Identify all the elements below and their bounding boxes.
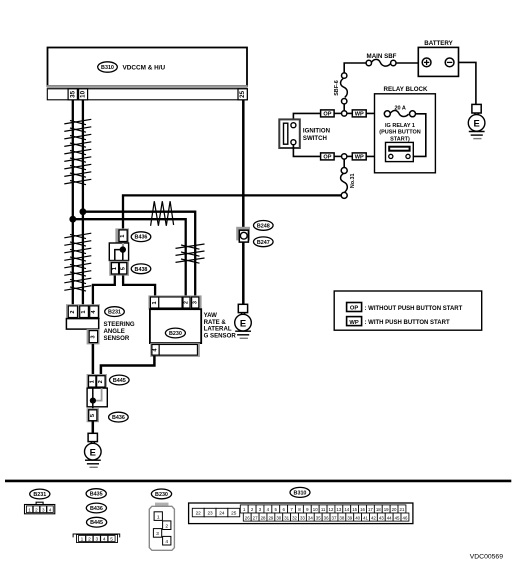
svg-text:WP: WP [355, 112, 364, 118]
wire branch from pin-10 junction to yaw sensor pin 3 [83, 212, 195, 297]
svg-text:(PUSH BUTTON: (PUSH BUTTON [379, 130, 420, 136]
oval label B436 (top) [131, 232, 151, 242]
junction on pin-10 wire [80, 208, 87, 215]
svg-text:2: 2 [35, 507, 38, 512]
svg-text:B438: B438 [135, 267, 148, 273]
svg-text:4: 4 [49, 507, 52, 512]
VDCCM pin 35 [68, 89, 77, 100]
svg-text:1: 1 [152, 301, 158, 304]
oval label B247 [253, 237, 273, 247]
oval label B438 [131, 264, 151, 274]
box OP (lower) [321, 153, 335, 161]
wire from fuse No.31 to connector B436 [123, 195, 341, 229]
fuse No.31 [341, 168, 356, 199]
svg-text:1: 1 [157, 514, 160, 520]
svg-text:START): START) [390, 136, 410, 142]
joint box below B445 [87, 388, 107, 407]
steering angle sensor bottom connector (pin 3) [87, 329, 100, 344]
svg-text:1: 1 [81, 537, 84, 543]
svg-text:41: 41 [363, 515, 368, 520]
box WP (lower) [352, 153, 366, 161]
svg-text:OP: OP [323, 112, 331, 118]
svg-text:3: 3 [192, 301, 198, 304]
svg-text:: WITH PUSH BUTTON START: : WITH PUSH BUTTON START [365, 320, 450, 326]
svg-text:2: 2 [98, 380, 104, 383]
connector B436 (bottom) [87, 408, 99, 422]
joint box below B436 [109, 243, 128, 261]
svg-text:37: 37 [332, 515, 337, 520]
svg-text:12: 12 [329, 507, 334, 512]
svg-text:B247: B247 [257, 240, 270, 246]
svg-text:25: 25 [231, 511, 237, 516]
wire from VDCCM pin 10 down to steering angle sensor pin 1 [82, 100, 84, 307]
svg-text:1: 1 [28, 507, 31, 512]
separator line [5, 480, 511, 483]
steering angle sensor caption [104, 321, 135, 342]
VDCCM pin 25 [238, 89, 247, 100]
svg-text:B230: B230 [155, 492, 168, 498]
connector B436 (top) [115, 228, 129, 242]
svg-text:10: 10 [80, 90, 87, 97]
svg-text:No.31: No.31 [350, 173, 356, 188]
svg-text:IG RELAY 1: IG RELAY 1 [385, 123, 415, 129]
wire SBF-6 to junction [343, 104, 345, 111]
svg-text:3: 3 [42, 507, 45, 512]
oval label B231 (pinout) [30, 489, 50, 499]
relay IG RELAY 1 caption [379, 123, 420, 143]
yaw sensor top connector (pins 1,2,3) [148, 295, 201, 309]
svg-text:5: 5 [120, 267, 126, 270]
svg-text:E: E [90, 446, 96, 457]
oval label B445 [110, 375, 130, 385]
svg-text:33: 33 [300, 515, 305, 520]
svg-text:4: 4 [165, 539, 168, 545]
oval label B435 (pinout) [86, 489, 106, 499]
yaw sensor caption [204, 312, 237, 339]
svg-text:ANGLE: ANGLE [104, 328, 125, 335]
ground E (body side) [85, 433, 102, 467]
wire from B436 to ground terminal [92, 421, 95, 434]
VDCCM & H/U control module B310 [47, 48, 248, 100]
svg-text:VDCCM & H/U: VDCCM & H/U [123, 65, 166, 72]
svg-text:15: 15 [352, 507, 357, 512]
svg-text:34: 34 [308, 515, 313, 520]
svg-text:20: 20 [392, 507, 397, 512]
connector B445 [87, 374, 107, 389]
svg-text:42: 42 [371, 515, 376, 520]
wire from VDCCM pin 35 down to steering angle sensor pin 2 [72, 100, 74, 307]
svg-text:29: 29 [268, 515, 273, 520]
svg-text:STEERING: STEERING [104, 321, 135, 328]
svg-text:25: 25 [239, 90, 246, 97]
oval label B445 (pinout) [87, 517, 107, 527]
wire joint dot in box [120, 246, 126, 252]
svg-text:E: E [473, 118, 479, 129]
svg-text:30: 30 [276, 515, 281, 520]
svg-text:24: 24 [219, 511, 225, 516]
VDCCM pin 10 [79, 89, 88, 100]
svg-text:WP: WP [349, 320, 358, 326]
svg-text:18: 18 [376, 507, 381, 512]
oval label B230 [165, 328, 185, 338]
svg-text:17: 17 [368, 507, 373, 512]
svg-text:: WITHOUT PUSH BUTTON START: : WITHOUT PUSH BUTTON START [365, 306, 463, 312]
oval label B248 [253, 221, 273, 231]
svg-text:38: 38 [339, 515, 344, 520]
battery [418, 40, 458, 77]
svg-text:OP: OP [350, 306, 359, 312]
svg-text:VDC00569: VDC00569 [470, 554, 503, 561]
junction circle (lower) [342, 154, 347, 159]
svg-text:B435: B435 [90, 492, 103, 498]
legend box [334, 291, 482, 330]
svg-text:IGNITION: IGNITION [303, 128, 330, 135]
svg-text:43: 43 [379, 515, 384, 520]
svg-text:36: 36 [324, 515, 329, 520]
svg-text:27: 27 [253, 515, 258, 520]
svg-text:10: 10 [313, 507, 318, 512]
svg-text:MAIN SBF: MAIN SBF [367, 53, 397, 60]
box WP (upper) [352, 110, 366, 118]
wire from B438 pin 5 to yaw sensor pin 1 [123, 275, 155, 297]
box OP (upper) [321, 110, 335, 118]
connector pinout B231 [25, 502, 55, 514]
fuse MAIN SBF [366, 53, 397, 66]
svg-text:2: 2 [88, 537, 91, 543]
ignition switch feed wire (upper OP/WP row) [293, 113, 320, 122]
svg-text:40: 40 [355, 515, 360, 520]
svg-text:31: 31 [284, 515, 289, 520]
wire MAIN SBF feed corner [344, 63, 366, 73]
svg-text:1: 1 [81, 310, 87, 313]
svg-text:35: 35 [69, 90, 76, 97]
svg-text:B436: B436 [135, 235, 148, 241]
ground E (battery side) [468, 104, 485, 138]
svg-text:B310: B310 [101, 65, 114, 71]
connector pinout B230 [149, 503, 174, 551]
ignition switch [279, 119, 330, 148]
svg-text:45: 45 [395, 515, 400, 520]
svg-text:RELAY BLOCK: RELAY BLOCK [383, 86, 428, 93]
svg-text:13: 13 [336, 507, 341, 512]
svg-text:B436: B436 [90, 506, 103, 512]
svg-text:23: 23 [207, 511, 213, 516]
fuse 20 A [384, 106, 415, 117]
svg-text:44: 44 [387, 515, 392, 520]
svg-text:35: 35 [316, 515, 321, 520]
svg-text:B436: B436 [112, 415, 125, 421]
svg-text:11: 11 [321, 507, 326, 512]
connector pinout B310 [189, 503, 413, 524]
oval label B310 (pinout) [290, 487, 310, 497]
svg-text:B310: B310 [294, 490, 307, 496]
oval label B230 (pinout) [151, 489, 171, 499]
svg-text:1: 1 [120, 235, 126, 238]
svg-text:G SENSOR: G SENSOR [204, 332, 237, 339]
svg-text:B248: B248 [257, 223, 270, 229]
svg-text:B231: B231 [33, 492, 46, 498]
twisted pair marks on horizontal branch pair [151, 201, 174, 226]
svg-text:2: 2 [165, 524, 168, 530]
svg-text:3: 3 [91, 335, 97, 338]
svg-text:32: 32 [292, 515, 297, 520]
wire from B438 pin 1 to steering angle sensor pin 4 [93, 275, 115, 306]
svg-text:WP: WP [355, 155, 364, 161]
twisted pair marks (upper band) [64, 119, 91, 184]
connector pinout B435/B436/B445 [73, 534, 120, 543]
svg-text:2: 2 [184, 301, 190, 304]
oval label B436 (pinout) [86, 503, 106, 513]
wire from B445 pin 2 into joint dot [95, 388, 102, 401]
svg-text:2: 2 [70, 310, 76, 313]
svg-text:21: 21 [400, 507, 405, 512]
svg-text:26: 26 [245, 515, 250, 520]
svg-text:B445: B445 [90, 520, 103, 526]
svg-text:22: 22 [196, 511, 202, 516]
twisted pair marks on vertical pair to yaw sensor [176, 244, 205, 263]
relay IG RELAY 1 [386, 142, 414, 161]
steering angle sensor body B231 [66, 319, 98, 330]
svg-text:4: 4 [103, 537, 106, 543]
wire from joint dot to B438 pin 5 [122, 250, 124, 262]
wire from yaw sensor pin 4 to B445 pin 2 [101, 356, 154, 376]
svg-text:14: 14 [344, 507, 349, 512]
wire branch from pin-35 junction to yaw sensor pin 2 [73, 219, 186, 297]
ground E (yaw sensor side) [235, 304, 252, 338]
connector B438 [109, 261, 129, 276]
junction circle (upper) [342, 111, 347, 116]
svg-text:16: 16 [360, 507, 365, 512]
svg-text:5: 5 [90, 414, 96, 417]
steering angle sensor connector (pins 2,1,4) [66, 304, 100, 319]
twisted pair marks (lower band) [64, 233, 91, 291]
svg-text:5: 5 [110, 537, 113, 543]
svg-text:OP: OP [323, 155, 331, 161]
junction on pin-35 wire [69, 216, 76, 223]
wire junction to fuse No.31 [343, 159, 345, 167]
wire from B247 down to ground terminal [242, 242, 245, 304]
svg-text:BATTERY: BATTERY [424, 40, 453, 47]
wire fuse to relay contact [410, 114, 426, 157]
fuse SBF-6 [334, 73, 347, 104]
svg-text:1: 1 [112, 267, 118, 270]
ignition switch output wire (lower OP/WP row) [293, 145, 320, 157]
oval label B231 [105, 307, 125, 317]
svg-text:B230: B230 [169, 331, 182, 337]
svg-text:3: 3 [156, 531, 159, 537]
inline connector B248/B247 [236, 227, 250, 242]
yaw sensor body B230 [150, 309, 201, 343]
svg-text:39: 39 [347, 515, 352, 520]
wire from steering sensor pin 3 to B445 pin 1 [92, 344, 95, 376]
svg-text:SBF-6: SBF-6 [334, 80, 340, 96]
wire from joint dot to B436 pin 5 [92, 401, 94, 410]
svg-text:SENSOR: SENSOR [104, 335, 130, 342]
wire from joint dot to B438 pin 1 [115, 250, 123, 262]
svg-text:19: 19 [384, 507, 389, 512]
relay block outline [375, 94, 436, 173]
wire MAIN SBF to battery [396, 62, 418, 64]
svg-text:E: E [240, 317, 246, 328]
joint dot [90, 398, 96, 404]
svg-text:B231: B231 [108, 310, 121, 316]
wire from VDCCM pin 25 down to connector B248 [242, 100, 245, 229]
wire battery negative to ground [459, 62, 476, 104]
yaw sensor bottom connector (pin 4) [150, 343, 200, 357]
svg-text:28: 28 [261, 515, 266, 520]
svg-text:1: 1 [89, 380, 95, 383]
svg-text:B445: B445 [113, 378, 126, 384]
oval label B436 (bottom) [109, 412, 129, 422]
svg-text:46: 46 [403, 515, 408, 520]
svg-text:SWITCH: SWITCH [303, 135, 327, 142]
svg-text:3: 3 [95, 537, 98, 543]
